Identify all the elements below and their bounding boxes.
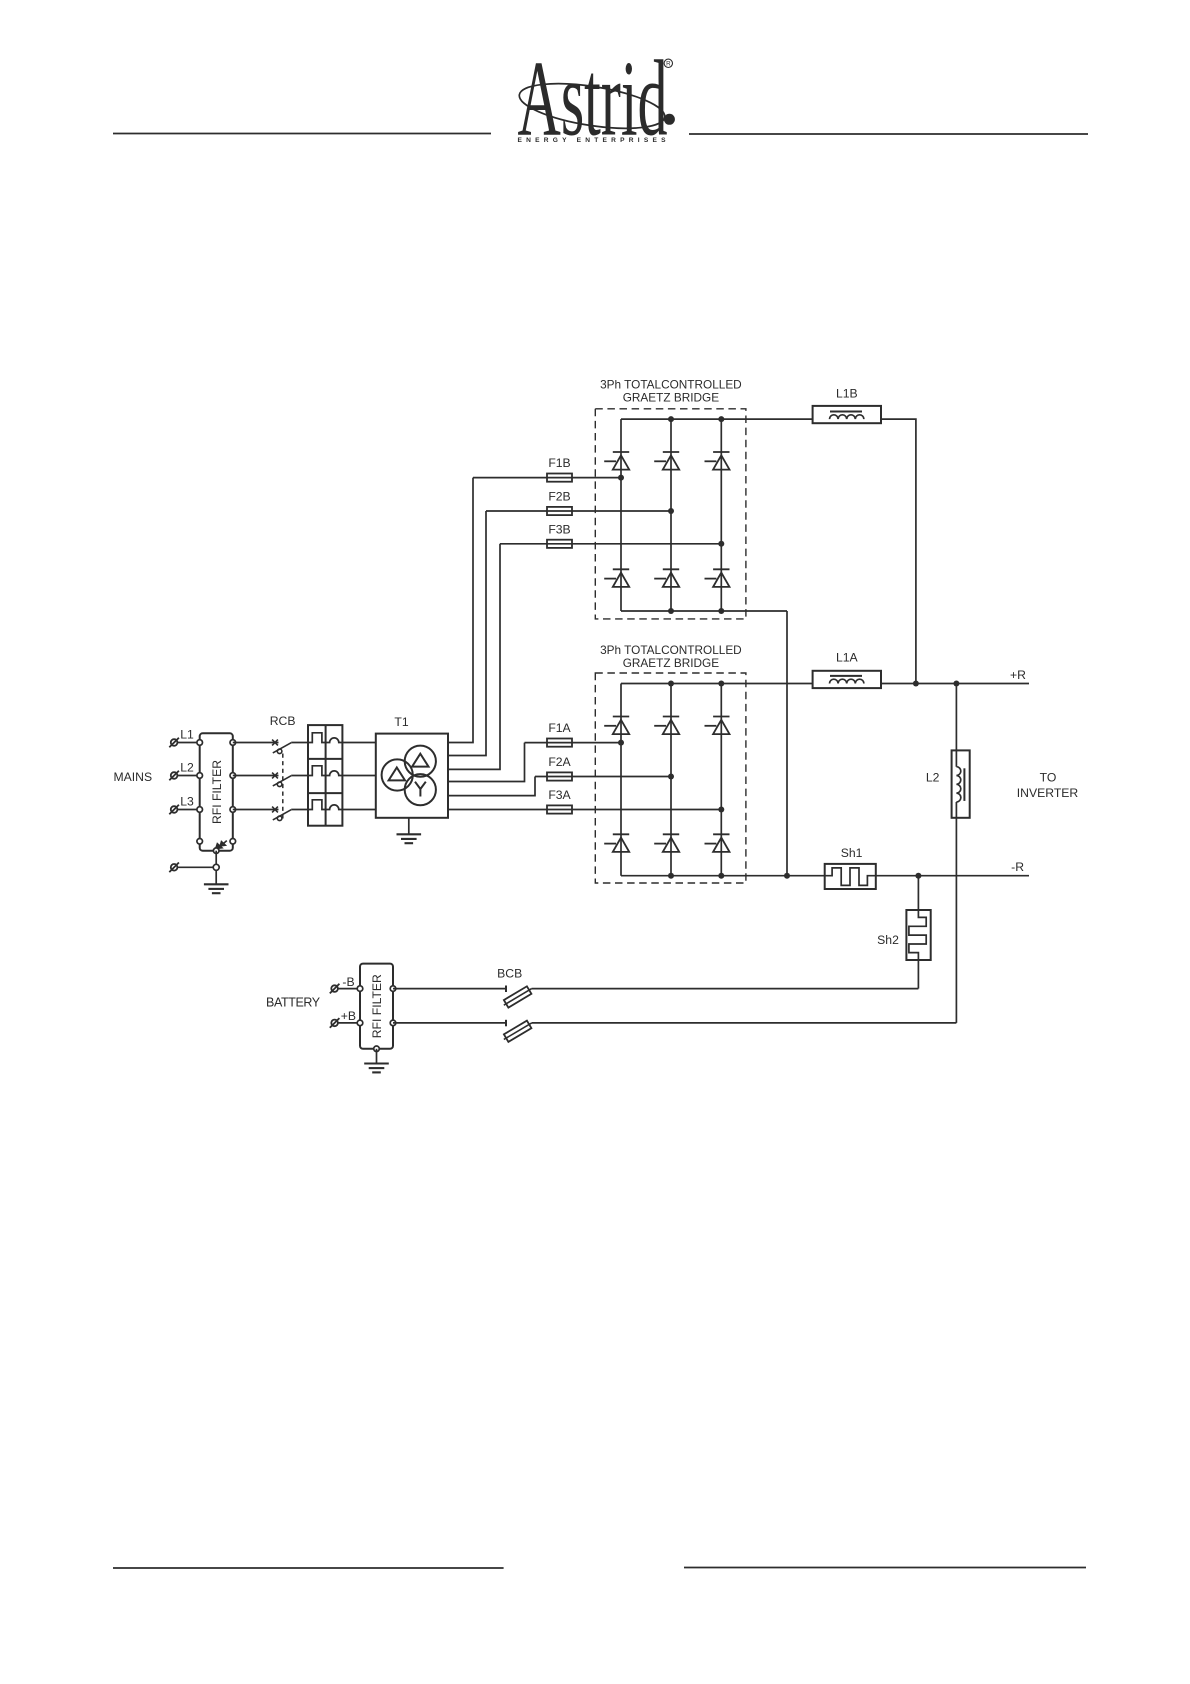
svg-text:TO: TO [1040, 771, 1057, 785]
logo period dot [664, 114, 675, 125]
wire T1 secondary 5 to F2A riser [448, 777, 535, 796]
svg-text:L1: L1 [180, 728, 194, 742]
svg-text:L1B: L1B [836, 387, 858, 401]
thyristor A upper 2 [654, 717, 679, 735]
svg-text:MAINS: MAINS [113, 770, 152, 784]
svg-text:L3: L3 [180, 795, 194, 809]
transformer T1 delta winding top right [405, 746, 436, 777]
wire battery RFI ground stem [376, 1049, 378, 1064]
fuse F1A [547, 739, 572, 747]
wire +R bus [881, 683, 1029, 685]
thyristor A lower 3 [705, 834, 730, 852]
wire RFI to RCB contact phase 1 [233, 742, 279, 744]
bridge A dashed outline [595, 673, 746, 883]
wire F1A row [525, 742, 622, 744]
bridge B title [600, 378, 742, 405]
RCB magnetic element pole 2 [326, 771, 343, 776]
RFI filter U2 (battery) box [360, 964, 393, 1049]
wire -B return [532, 988, 919, 990]
header rule left [113, 133, 491, 135]
inductor L2 coil [956, 767, 960, 802]
thyristor B lower 2 [654, 569, 679, 587]
thyristor A lower 2 [654, 834, 679, 852]
bridge A bottom bus [621, 875, 825, 877]
header rule right [689, 133, 1088, 135]
wire RFI to RCB contact phase 3 [233, 809, 279, 811]
fuse F3A [547, 805, 572, 813]
svg-text:-B: -B [342, 975, 354, 989]
logo Astrid wordmark [518, 38, 668, 158]
wire RCB to T1 phase 3 [342, 809, 375, 811]
footer rule left [113, 1567, 504, 1569]
svg-text:-R: -R [1011, 860, 1024, 874]
bridge B dashed outline [595, 409, 746, 619]
RCB thermal element pole 2 [308, 766, 326, 776]
junction dots bridge B [618, 416, 724, 614]
BCB fuse-switch +B [502, 1019, 534, 1043]
svg-text:L1A: L1A [836, 651, 859, 665]
junction dots bridge A [618, 681, 724, 879]
wire Sh2 upper stem [917, 876, 919, 910]
bridge A column 2 wire [670, 684, 672, 876]
wire T1 secondary 4 to F1A riser [448, 743, 525, 782]
inductor L2 box [952, 750, 970, 817]
thyristor A upper 1 [604, 717, 629, 735]
bridge B column 3 wire [720, 419, 722, 611]
node +R junction L1B [913, 681, 919, 687]
thyristor A lower 1 [604, 834, 629, 852]
wire -R bus [876, 875, 1029, 877]
wire PE terminal to ground node [177, 866, 216, 868]
wire L2 branch vertical [955, 684, 957, 1023]
thyristor B upper 3 [705, 452, 730, 470]
svg-text:R: R [666, 61, 671, 68]
svg-text:GRAETZ BRIDGE: GRAETZ BRIDGE [623, 656, 719, 670]
wire +B return [532, 1022, 957, 1024]
fuse F3B [547, 540, 572, 548]
wire Sh2 lower stem [917, 960, 919, 989]
wire F1B row [473, 477, 621, 479]
wire +B terminal to RFI [338, 1022, 360, 1024]
RCB thermal element pole 1 [308, 733, 326, 743]
wire T1 secondary 1 to F1B riser [448, 478, 473, 743]
RCB block center divider [325, 725, 327, 826]
wire contact to RCB block phase 2 [291, 775, 308, 777]
inductor L2 core bar [963, 768, 965, 801]
thyristor B upper 1 [604, 452, 629, 470]
bridge A column 1 wire [620, 684, 622, 876]
logo registered mark [664, 59, 672, 68]
wire RFI to RCB contact phase 2 [233, 775, 279, 777]
svg-text:F1A: F1A [548, 721, 571, 735]
thyristor B lower 3 [705, 569, 730, 587]
svg-text:F1B: F1B [548, 456, 570, 470]
wire contact to RCB block phase 3 [291, 809, 308, 811]
RFI filter U1 pins right [230, 740, 236, 844]
svg-text:RCB: RCB [270, 714, 296, 728]
RCB thermal element pole 3 [308, 800, 326, 810]
wire contact to RCB block phase 1 [291, 742, 308, 744]
svg-text:+R: +R [1010, 668, 1026, 682]
shunt Sh1 [825, 864, 876, 889]
svg-text:F3B: F3B [548, 522, 570, 536]
svg-text:F3A: F3A [548, 788, 571, 802]
fuse F2A [547, 772, 572, 780]
terminal L3 [169, 805, 179, 815]
transformer T1 wye winding bottom right [405, 774, 436, 805]
wire T1 ground stem [408, 818, 410, 835]
wire F3B row [500, 543, 721, 545]
svg-text:+B: +B [341, 1009, 356, 1023]
terminal -B [330, 984, 340, 994]
wire RFI ground stem [215, 851, 217, 885]
wire bridge B negative riser [786, 611, 788, 876]
thyristor B upper 2 [654, 452, 679, 470]
thyristor A upper 3 [705, 717, 730, 735]
wire T1 secondary 2 to F2B riser [448, 511, 486, 756]
wire F2B row [486, 510, 671, 512]
RCB mechanical coupling dashed link [282, 754, 284, 820]
fuse F2B [547, 507, 572, 515]
terminal L1 [169, 738, 179, 748]
RCB magnetic element pole 3 [326, 805, 343, 810]
terminal L2 [169, 771, 179, 781]
bridge A title [600, 643, 742, 670]
svg-text:Sh2: Sh2 [877, 933, 899, 947]
wire RFI to BCB fuse -B [393, 988, 506, 990]
inductor L1B [813, 406, 881, 423]
bridge B column 1 wire [620, 419, 622, 611]
RCB magnetic element pole 1 [326, 738, 343, 743]
RCB breaker block outline [308, 725, 342, 826]
wire F3A row [448, 809, 721, 811]
wire T1 secondary 3 to F3B riser [448, 544, 500, 770]
svg-text:L2: L2 [180, 761, 194, 775]
RFI filter U1 pins left [197, 740, 203, 844]
svg-text:INVERTER: INVERTER [1017, 786, 1079, 800]
wire RCB to T1 phase 2 [342, 775, 375, 777]
ground (T1) [397, 834, 422, 843]
svg-text:3Ph TOTALCONTROLLED: 3Ph TOTALCONTROLLED [600, 378, 742, 392]
fuse F1B [547, 474, 572, 482]
breaker contact RCB phase 1 [272, 740, 291, 754]
bridge B top bus [621, 418, 813, 420]
svg-text:Sh1: Sh1 [841, 846, 863, 860]
wire RFI to BCB fuse +B [393, 1022, 506, 1024]
svg-text:BCB: BCB [497, 967, 522, 981]
transformer T1 delta winding left [382, 759, 413, 790]
breaker contact RCB phase 2 [272, 773, 291, 787]
RCB block row divider 1 [308, 758, 342, 760]
inductor L1A [813, 671, 881, 688]
RCB block row divider 2 [308, 792, 342, 794]
bridge A column 3 wire [720, 684, 722, 876]
terminal +B [330, 1018, 340, 1028]
svg-text:RFI FILTER: RFI FILTER [370, 974, 384, 1038]
BCB fuse-switch -B [502, 985, 534, 1009]
svg-text:T1: T1 [394, 715, 408, 729]
wire -B terminal to RFI [338, 988, 360, 990]
svg-text:F2B: F2B [548, 490, 570, 504]
wire L3 terminal to RFI [177, 809, 199, 811]
thyristor B lower 1 [604, 569, 629, 587]
breaker contact RCB phase 3 [272, 807, 291, 821]
wire L2 terminal to RFI [177, 775, 199, 777]
wire RCB to T1 phase 1 [342, 742, 375, 744]
svg-text:F2A: F2A [548, 755, 571, 769]
svg-text:3Ph TOTALCONTROLLED: 3Ph TOTALCONTROLLED [600, 643, 742, 657]
RFI filter U1 (mains) box [200, 733, 233, 850]
RFI filter U1 chassis arrow [215, 841, 227, 849]
RFI filter U1 ground pin bump [213, 848, 219, 854]
node PE junction open circle [213, 864, 219, 870]
RFI filter U2 pins [357, 986, 396, 1052]
footer rule right [684, 1567, 1086, 1569]
svg-text:L2: L2 [926, 771, 940, 785]
bridge A top bus [621, 683, 813, 685]
svg-text:GRAETZ BRIDGE: GRAETZ BRIDGE [623, 391, 719, 405]
wire L1B to positive riser [881, 419, 916, 683]
wire L1 terminal to RFI [177, 742, 199, 744]
svg-text:RFI FILTER: RFI FILTER [210, 760, 224, 824]
TO INVERTER label [1017, 771, 1079, 801]
shunt Sh2 [906, 910, 930, 960]
node Sh1 left junction [784, 873, 790, 879]
bridge B bottom bus [621, 610, 787, 612]
logo ellipse swoosh [516, 75, 667, 136]
wire F2A row [535, 776, 671, 778]
transformer T1 box [376, 734, 448, 818]
terminal PE [169, 863, 179, 873]
svg-text:BATTERY: BATTERY [266, 996, 321, 1010]
node -R junction Sh2 [915, 873, 921, 879]
bridge B column 2 wire [670, 419, 672, 611]
node +R junction L2 [953, 681, 959, 687]
ground (battery RFI) [364, 1064, 389, 1073]
ground (mains RFI) [204, 884, 229, 893]
